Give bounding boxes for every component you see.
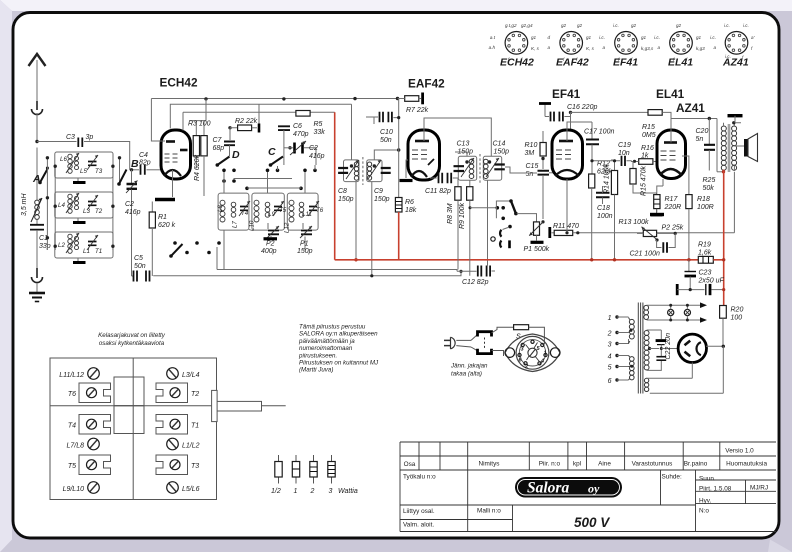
svg-text:a: a (602, 45, 605, 50)
resistor R7 22k (396, 93, 429, 115)
capacitor C10 50n (366, 99, 400, 151)
svg-text:i.c.: i.c. (599, 35, 605, 40)
wattage legend 2 W (310, 455, 318, 495)
svg-text:C7: C7 (213, 137, 223, 144)
svg-text:416p: 416p (125, 209, 141, 216)
EAF42 anode top wire (424, 118, 491, 156)
power transformer core (638, 303, 643, 394)
svg-text:AZ41: AZ41 (676, 101, 705, 115)
capacitor C11 82p (425, 173, 458, 195)
svg-text:1,6k: 1,6k (698, 250, 712, 257)
svg-text:1/2: 1/2 (271, 488, 281, 495)
input coil unit L2 L1 T1 (55, 232, 113, 263)
svg-text:g1: g1 (531, 35, 537, 40)
svg-text:R4 620k: R4 620k (194, 154, 201, 181)
svg-text:100: 100 (731, 315, 743, 322)
svg-text:100n: 100n (597, 213, 613, 220)
svg-text:Malli n:o: Malli n:o (477, 508, 501, 515)
resistor R11 470 (550, 223, 735, 238)
svg-text:L1: L1 (83, 248, 90, 255)
svg-text:Liittyy osal.: Liittyy osal. (403, 508, 435, 515)
capacitor C4 82p (139, 152, 161, 175)
tube base diagram ECH42 (489, 23, 540, 69)
mains plug (444, 337, 471, 349)
svg-text:K, s: K, s (586, 46, 595, 51)
svg-text:i.c.: i.c. (743, 23, 749, 28)
svg-text:C4: C4 (139, 152, 148, 159)
svg-text:AZ41: AZ41 (722, 57, 749, 69)
svg-text:R17: R17 (665, 196, 679, 203)
mains double-pole switch (471, 332, 492, 354)
fuse S (492, 325, 545, 356)
svg-text:150p: 150p (297, 248, 313, 255)
potentiometer P2 25k + C21 100n (630, 225, 684, 258)
svg-text:3,5 mH: 3,5 mH (21, 192, 28, 216)
svg-text:SALORA oy:n alkuperäiseen: SALORA oy:n alkuperäiseen (299, 331, 378, 338)
svg-text:T2: T2 (191, 391, 199, 398)
capacitor C17 100n (584, 129, 614, 175)
svg-text:C2: C2 (125, 201, 134, 208)
svg-text:Työkalu n:o: Työkalu n:o (403, 474, 436, 481)
svg-text:L7: L7 (232, 221, 239, 228)
bottom-right fold (768, 540, 792, 552)
svg-text:Br.paino: Br.paino (684, 461, 708, 468)
wire IFT2 to EF41 (455, 152, 537, 173)
mains terminals 1-6 (607, 315, 629, 385)
svg-text:C11 82p: C11 82p (425, 188, 451, 195)
tube EF41 (552, 130, 583, 179)
tube EL41 (657, 130, 686, 179)
svg-text:g2: g2 (577, 23, 583, 28)
svg-text:82p: 82p (139, 160, 151, 167)
svg-text:C14: C14 (493, 141, 506, 148)
tube ECH42 (161, 130, 191, 179)
svg-text:(Martti Juva): (Martti Juva) (299, 367, 333, 374)
svg-text:a.t: a.t (490, 35, 496, 40)
svg-text:D: D (232, 149, 240, 161)
svg-text:Piirustuksen on kuitannut MJ: Piirustuksen on kuitannut MJ (299, 360, 379, 367)
svg-text:3M: 3M (525, 150, 535, 157)
svg-text:L9/L10: L9/L10 (63, 486, 85, 493)
terminal L5/L6 (167, 482, 200, 494)
ECH42 cathode bar (155, 170, 175, 200)
svg-text:L6: L6 (60, 156, 67, 163)
svg-text:3: 3 (329, 488, 333, 495)
svg-text:T3: T3 (191, 463, 199, 470)
resistor R12 620k (589, 161, 613, 262)
svg-text:Jänn. jakajan: Jänn. jakajan (450, 363, 488, 370)
resistor R17 220R (650, 179, 681, 215)
input coil unit L6 L5 T3 (55, 152, 113, 183)
svg-text:ECH42: ECH42 (500, 57, 534, 69)
svg-text:33k: 33k (314, 129, 326, 136)
svg-text:Nimitys: Nimitys (479, 461, 500, 468)
pickup switch (469, 199, 537, 222)
svg-text:a: a (547, 45, 550, 50)
svg-text:P1: P1 (300, 241, 309, 248)
terminal T4 (68, 415, 111, 435)
svg-text:2: 2 (607, 331, 612, 338)
svg-text:T2: T2 (95, 208, 103, 215)
capacitor C5 50n (132, 255, 150, 282)
svg-text:a': a' (751, 35, 755, 40)
svg-text:C22 20n: C22 20n (665, 333, 672, 360)
svg-text:EAF42: EAF42 (408, 77, 445, 91)
rectifier heater winding (644, 346, 723, 393)
osc coil unit L8 L7 T4 (217, 193, 250, 230)
top bus wires (151, 98, 399, 100)
antenna wire (36, 113, 38, 200)
choke 3,5 mH (21, 192, 42, 222)
svg-text:C15: C15 (526, 163, 539, 170)
svg-text:a: a (657, 45, 660, 50)
red wire left vertical (334, 112, 336, 259)
osc coil unit L10 L9 T5 (249, 193, 287, 231)
Salora logo (515, 477, 622, 498)
EF41 anode wire to C17 (567, 122, 592, 141)
svg-text:C16 220p: C16 220p (567, 104, 597, 111)
IF transformer 1 C8 C9 (338, 157, 391, 203)
heater secondary with pilot lamps (644, 302, 707, 322)
resistor R16 1k (632, 145, 658, 164)
potentiometer R13 100k (619, 219, 658, 240)
secondary return wire (733, 172, 735, 233)
svg-text:g1: g1 (586, 35, 592, 40)
tube base diagram EF41 (599, 23, 654, 69)
svg-text:k,g3: k,g3 (696, 46, 705, 51)
svg-text:päiväämättömään ja: päiväämättömään ja (298, 338, 355, 345)
svg-text:g.t,g2: g.t,g2 (505, 23, 517, 28)
svg-text:L1/L2: L1/L2 (182, 443, 200, 450)
svg-text:T6: T6 (316, 207, 324, 214)
capacitor C1 33p (30, 220, 51, 268)
svg-text:R14 100k: R14 100k (604, 164, 611, 194)
left lavender strip (0, 0, 12, 552)
trimmer P2 400p (261, 223, 279, 255)
capacitor C19 10n (590, 142, 631, 166)
svg-text:C10: C10 (380, 129, 393, 136)
svg-text:C9: C9 (374, 188, 383, 195)
svg-text:18k: 18k (405, 207, 417, 214)
svg-text:50n: 50n (134, 263, 146, 270)
svg-text:B: B (131, 158, 139, 170)
svg-text:L11/L12: L11/L12 (59, 372, 84, 379)
svg-text:takaa (alta): takaa (alta) (451, 371, 482, 378)
terminal L1/L2 (167, 438, 200, 450)
svg-text:i.c.: i.c. (613, 23, 619, 28)
resistor R15 0M5 (642, 110, 671, 139)
red wire B+ to output transformer (723, 170, 725, 260)
svg-text:EF41: EF41 (552, 87, 581, 101)
svg-text:C3: C3 (66, 134, 75, 141)
title block grid (400, 442, 776, 532)
potentiometer P1 500k (524, 220, 550, 253)
svg-text:Piirt. 1.5.08: Piirt. 1.5.08 (699, 486, 732, 493)
svg-text:400p: 400p (261, 248, 277, 255)
note tämä piirustus (298, 324, 379, 374)
terminal L9/L10 (63, 482, 100, 494)
svg-text:R5: R5 (314, 121, 323, 128)
terminal T3 (156, 455, 199, 475)
svg-text:5: 5 (608, 365, 612, 372)
svg-text:i.c.: i.c. (654, 35, 660, 40)
resistors R3 R4 (188, 99, 211, 196)
terminal L7/L8 (66, 438, 99, 450)
osc coil unit L12 L11 T6 (284, 193, 324, 233)
svg-text:L4: L4 (58, 202, 65, 209)
svg-text:EL41: EL41 (668, 57, 693, 69)
svg-text:L7/L8: L7/L8 (66, 443, 84, 450)
svg-text:1: 1 (608, 315, 612, 322)
svg-text:416p: 416p (309, 153, 325, 160)
chassis bus wires (216, 247, 218, 270)
tube EAF42 (408, 130, 440, 180)
svg-text:220R: 220R (664, 204, 682, 211)
wattage legend 3 W (328, 455, 358, 495)
capacitor C22 20n (656, 333, 679, 360)
gram jack (491, 225, 512, 248)
svg-text:C5: C5 (134, 255, 143, 262)
svg-text:2: 2 (310, 488, 315, 495)
resistor R6 18k (395, 150, 416, 214)
voltage selector socket (505, 334, 560, 372)
tube base diagram AZ41 (710, 23, 754, 69)
resistor R18 100R (682, 156, 714, 261)
switch A (32, 167, 49, 186)
switch B arm (117, 158, 139, 186)
svg-text:kpl: kpl (573, 461, 581, 468)
wattage legend 1 W (292, 455, 299, 495)
svg-text:L12: L12 (284, 222, 291, 233)
svg-text:150p: 150p (338, 196, 354, 203)
svg-text:R13 100k: R13 100k (619, 219, 649, 226)
svg-text:6: 6 (608, 378, 612, 385)
svg-text:Kelasarjakuvat on liitetty: Kelasarjakuvat on liitetty (98, 332, 166, 339)
svg-text:Salora: Salora (527, 480, 569, 497)
resistor R15 470k (630, 161, 663, 215)
capacitor C15 5n (526, 163, 557, 219)
svg-text:50n: 50n (380, 137, 392, 144)
HT secondary (644, 330, 661, 370)
svg-text:R15 470k: R15 470k (641, 166, 648, 196)
svg-text:C2: C2 (309, 145, 318, 152)
svg-text:EL41: EL41 (656, 87, 685, 101)
svg-text:Suhde:: Suhde: (662, 474, 682, 481)
svg-text:g2: g2 (561, 23, 567, 28)
output transformer (703, 116, 743, 192)
svg-text:EF41: EF41 (613, 57, 638, 69)
svg-text:L8: L8 (217, 205, 224, 212)
svg-text:piirustukseen.: piirustukseen. (298, 352, 337, 359)
speaker (734, 134, 757, 172)
svg-text:g1: g1 (641, 35, 647, 40)
svg-text:R3 100: R3 100 (188, 121, 211, 128)
svg-text:L3: L3 (83, 208, 90, 215)
svg-text:33p: 33p (39, 243, 51, 250)
svg-text:T3: T3 (95, 168, 103, 175)
svg-text:P2 25k: P2 25k (662, 225, 684, 232)
svg-text:Valm. aloit.: Valm. aloit. (403, 522, 434, 529)
resistor R19 1,6k (698, 242, 713, 264)
antenna (29, 54, 46, 115)
svg-text:g2: g2 (631, 23, 637, 28)
svg-text:R8 3M: R8 3M (447, 203, 454, 224)
terminal L3/L4 (167, 368, 200, 380)
svg-text:4: 4 (608, 354, 612, 361)
svg-text:5n: 5n (696, 136, 704, 143)
svg-text:L5: L5 (80, 168, 87, 175)
node B wire (130, 169, 139, 171)
svg-text:R1: R1 (158, 214, 167, 221)
svg-text:0M5: 0M5 (642, 132, 656, 139)
svg-text:5n: 5n (526, 171, 534, 178)
rectifier AZ41 (bottom view) (678, 334, 706, 362)
svg-text:1: 1 (294, 488, 298, 495)
osc switch wires (234, 178, 293, 180)
svg-text:R6: R6 (405, 199, 414, 206)
svg-text:T1: T1 (95, 248, 102, 255)
svg-text:C23: C23 (699, 270, 712, 277)
resistor R14 100k (604, 159, 618, 261)
svg-text:C6: C6 (293, 123, 302, 130)
svg-text:Tämä piirustus perustuu: Tämä piirustus perustuu (299, 324, 366, 331)
svg-text:1k: 1k (641, 153, 649, 160)
red wire from R6 to bus (398, 212, 400, 260)
coil block rails (46, 156, 122, 250)
svg-text:k,g3,s: k,g3,s (641, 46, 654, 51)
svg-text:g2: g2 (676, 23, 682, 28)
svg-text:100R: 100R (697, 204, 714, 211)
svg-text:g2,g4: g2,g4 (521, 23, 533, 28)
ground (29, 293, 45, 302)
variable capacitor C2 416p (osc) (284, 141, 325, 165)
capacitor C16 220p (539, 104, 655, 131)
svg-text:A: A (32, 173, 41, 185)
svg-text:C21 100n: C21 100n (630, 251, 660, 258)
svg-text:R7 22k: R7 22k (406, 107, 429, 114)
svg-text:C19: C19 (618, 142, 631, 149)
svg-text:P1 500k: P1 500k (524, 246, 550, 253)
svg-text:a: a (713, 45, 716, 50)
svg-text:3: 3 (608, 342, 612, 349)
svg-text:EAF42: EAF42 (556, 57, 589, 69)
svg-text:R20: R20 (731, 307, 744, 314)
svg-text:500 V: 500 V (574, 515, 610, 530)
IFT1 wires (351, 104, 353, 160)
svg-text:L2: L2 (58, 242, 65, 249)
svg-text:C20: C20 (696, 128, 709, 135)
terminal T1 (156, 415, 199, 435)
power transformer primary (629, 318, 635, 381)
rectifier wires (706, 345, 723, 347)
svg-text:numeroimattomaan: numeroimattomaan (299, 345, 353, 352)
svg-text:L5/L6: L5/L6 (182, 486, 200, 493)
svg-text:C: C (268, 146, 276, 158)
svg-text:50k: 50k (703, 185, 715, 192)
svg-text:150p: 150p (494, 149, 510, 156)
capacitor C23 2x50 uF (677, 260, 725, 295)
svg-text:R11 470: R11 470 (553, 223, 579, 230)
switch D (216, 149, 241, 167)
top light strip (0, 0, 792, 11)
capacitor C20 5n (696, 119, 716, 171)
resistor R5 33k (296, 111, 325, 137)
capacitor C12 82p (457, 180, 495, 286)
svg-text:K, s: K, s (531, 46, 540, 51)
svg-text:1: 1 (544, 351, 547, 357)
input coil unit L4 L3 T2 (55, 192, 113, 223)
tube base diagram EAF42 (547, 23, 594, 69)
svg-text:Wattia: Wattia (338, 488, 358, 495)
resistors R8 3M R9 100k (447, 178, 473, 276)
svg-text:g1: g1 (696, 35, 702, 40)
svg-text:Hyv.: Hyv. (699, 498, 712, 505)
svg-text:Suun.: Suun. (699, 476, 716, 483)
svg-text:R18: R18 (697, 196, 710, 203)
svg-text:T5: T5 (279, 207, 287, 214)
EL41 anode top wire (671, 119, 717, 143)
svg-text:Piir. n:o: Piir. n:o (539, 461, 561, 468)
svg-text:R2 22k: R2 22k (235, 118, 258, 125)
capacitor C3 3p (37, 134, 130, 170)
svg-text:R9 100k: R9 100k (459, 202, 466, 229)
svg-text:MJ/RJ: MJ/RJ (750, 485, 768, 492)
wattage legend 1/2 W (271, 455, 282, 495)
svg-text:620 k: 620 k (158, 222, 176, 229)
svg-text:T1: T1 (191, 423, 199, 430)
terminal L11/L12 (59, 368, 99, 380)
resistor R2 22k (228, 104, 259, 140)
band switch row (below R1) (169, 241, 221, 258)
title block texts (403, 448, 768, 529)
osc switch contact dots (222, 169, 317, 191)
svg-text:T4: T4 (241, 210, 249, 217)
svg-text:150p: 150p (374, 196, 390, 203)
svg-text:Huomautuksia: Huomautuksia (726, 461, 767, 468)
capacitor C18 100n (596, 186, 613, 220)
svg-text:R25: R25 (703, 177, 716, 184)
svg-text:68p: 68p (213, 145, 225, 152)
svg-text:C8: C8 (338, 188, 347, 195)
svg-text:a.h: a.h (489, 45, 496, 50)
svg-text:ECH42: ECH42 (160, 76, 198, 90)
EF41 cathode to C18/R13 wires (566, 179, 568, 233)
antenna lower connector (32, 268, 43, 292)
red bus horizontal (335, 259, 698, 261)
switch C (268, 146, 283, 167)
terminal T5 (68, 455, 111, 475)
svg-text:R15: R15 (642, 124, 655, 131)
svg-text:d: d (547, 35, 550, 40)
svg-text:i.c.: i.c. (724, 23, 730, 28)
resistor R1 620k (149, 202, 175, 277)
svg-text:L3/L4: L3/L4 (182, 372, 200, 379)
svg-text:470p: 470p (293, 131, 309, 138)
capacitor C6 470p (278, 123, 309, 165)
tube base diagram EL41 (654, 23, 705, 69)
capacitor C7 68p (213, 137, 236, 156)
svg-text:Aine: Aine (598, 461, 611, 468)
svg-text:C17 100n: C17 100n (584, 129, 614, 136)
IF transformer 2 C13 C14 (454, 141, 510, 184)
resistor R10 3M (525, 131, 547, 169)
resistor R20 100 (720, 306, 744, 347)
svg-text:P2: P2 (266, 241, 275, 248)
red wire R19 to R20 column (713, 260, 723, 306)
svg-text:T4: T4 (68, 423, 76, 430)
svg-text:T6: T6 (68, 391, 76, 398)
svg-text:C18: C18 (597, 205, 610, 212)
